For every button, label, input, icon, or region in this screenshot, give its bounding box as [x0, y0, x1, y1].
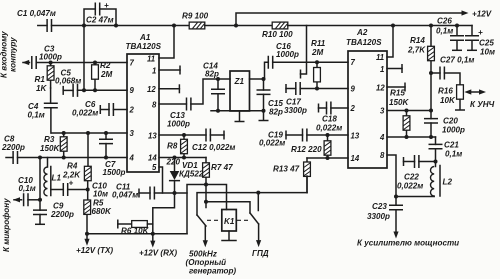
svg-text:3300p: 3300p [284, 106, 307, 115]
svg-text:A1: A1 [139, 33, 151, 42]
resistor R2 2M [92, 61, 113, 90]
svg-text:К УНЧ: К УНЧ [470, 100, 495, 109]
node junction C14 bottom [216, 109, 220, 113]
svg-text:1: 1 [380, 65, 384, 74]
svg-text:генератор): генератор) [189, 267, 236, 276]
node junction R4 riser [86, 131, 90, 135]
svg-text:C2 47м: C2 47м [86, 16, 114, 25]
ground K1 stub [222, 231, 236, 241]
svg-text:14: 14 [148, 154, 157, 163]
svg-text:КД522: КД522 [179, 170, 204, 179]
capacitor C17 3300p [284, 82, 348, 115]
capacitor C18 0,022м [316, 102, 348, 133]
svg-text:2,7K: 2,7K [407, 46, 426, 55]
svg-text:10м: 10м [93, 190, 108, 199]
svg-text:2200p: 2200p [50, 210, 74, 219]
wire K1 coil feed [187, 185, 227, 234]
wire pin3 net A2 [387, 110, 431, 112]
svg-text:C21: C21 [444, 141, 459, 150]
svg-text:К микрофону: К микрофону [2, 198, 11, 252]
svg-text:C20: C20 [443, 117, 458, 126]
svg-text:3: 3 [380, 107, 385, 116]
capacitor C6 0,022м [72, 100, 127, 118]
relay K1 [222, 210, 237, 232]
resistor R8 220 [166, 135, 188, 167]
wire pin11 riser A2 [387, 26, 393, 58]
capacitor C4 0,1м [28, 88, 58, 133]
svg-text:12: 12 [376, 84, 385, 93]
svg-text:C27 0,1м: C27 0,1м [440, 56, 474, 65]
capacitor C11 0,047м [112, 183, 187, 200]
node К УНЧ output [470, 100, 495, 109]
pin 1 stub A1 [159, 66, 180, 75]
svg-text:K1: K1 [224, 217, 235, 226]
svg-text:Z1: Z1 [234, 77, 245, 86]
svg-text:8: 8 [380, 151, 385, 160]
svg-text:A2: A2 [356, 28, 368, 37]
svg-text:1000p: 1000p [39, 53, 62, 62]
svg-text:0,068м: 0,068м [55, 77, 81, 86]
node +12V (TX) arrow [76, 234, 113, 255]
node К усилителю мощности output [357, 232, 459, 248]
svg-text:1K: 1K [36, 84, 48, 93]
svg-text:0,1м: 0,1м [28, 111, 45, 120]
node К микрофону (mic input, rotated label) [2, 197, 22, 252]
wire switch link [206, 202, 250, 213]
svg-text:220: 220 [166, 158, 181, 167]
wire pin14 net A2 [307, 157, 348, 159]
node junction C23 top [394, 195, 398, 199]
svg-text:12: 12 [147, 85, 156, 94]
svg-text:7: 7 [130, 59, 135, 68]
svg-text:C23: C23 [372, 202, 387, 211]
capacitor C2 47м (electrolytic) [86, 1, 116, 26]
capacitor C19 0,022м [259, 129, 348, 148]
svg-text:7: 7 [351, 58, 356, 67]
resistor R5 680K [84, 190, 112, 234]
node junction C7 top [104, 131, 108, 135]
dashed K1 linkage [207, 219, 250, 221]
node junction R3 bottom [62, 156, 66, 160]
svg-text:0,047м: 0,047м [112, 191, 138, 200]
svg-text:4: 4 [379, 133, 385, 142]
node junction R8 top [182, 133, 186, 137]
node junction R7/coil feed [204, 183, 208, 187]
capacitor C20 1000p [424, 111, 465, 138]
node junction RX riser [151, 232, 155, 236]
svg-text:3: 3 [130, 129, 135, 138]
resistor R12 220 [291, 135, 331, 158]
svg-text:К входному: К входному [0, 31, 9, 78]
svg-text:+: + [69, 179, 74, 188]
node junction C1/C2 [82, 24, 86, 28]
svg-text:1000p: 1000p [167, 120, 190, 129]
svg-text:0,1м: 0,1м [445, 150, 462, 159]
capacitor C5 0,068м [55, 69, 81, 97]
svg-text:680K: 680K [92, 207, 113, 216]
svg-text:R3: R3 [44, 135, 55, 144]
pin 12 stub A1 [159, 84, 179, 93]
svg-text:R8: R8 [167, 142, 178, 151]
svg-text:9: 9 [130, 86, 135, 95]
capacitor C3 1000p [32, 45, 62, 70]
resistor R11 2M [311, 39, 326, 89]
capacitor C21 0,1м [429, 137, 463, 162]
node junction C2 right [114, 24, 118, 28]
wire +12V(TX) rail [87, 233, 187, 235]
pin 12 stub A2 [387, 83, 405, 92]
svg-text:R11: R11 [311, 39, 326, 48]
svg-text:контуру: контуру [9, 37, 18, 72]
node +12V (RX) arrow [139, 234, 177, 258]
node junction pin11 riser A2 [391, 24, 395, 28]
node junction R11 top [315, 60, 319, 64]
pin 1 stub A2 [387, 64, 402, 73]
resistor R14 2,7K [407, 26, 434, 111]
wire pin8 riser A2 [387, 155, 396, 197]
capacitor C14 82p [203, 62, 225, 111]
svg-text:C12 0,022м: C12 0,022м [192, 143, 235, 152]
svg-text:0,022м: 0,022м [397, 182, 423, 191]
wire pin14 net A1 [159, 157, 206, 159]
wire [23, 62, 30, 64]
svg-text:1500p: 1500p [103, 168, 126, 177]
svg-text:2200p: 2200p [1, 143, 25, 152]
svg-text:0,022м: 0,022м [316, 124, 342, 133]
node junction R2 bottom [93, 88, 97, 92]
wire R10 riser stub [301, 26, 307, 79]
svg-text:R2: R2 [100, 61, 111, 70]
node +12V arrow [462, 10, 492, 19]
svg-text:L1: L1 [52, 174, 62, 183]
node junction right contact [256, 191, 260, 195]
ground Z1 stub [235, 111, 245, 122]
op-amp U A1 TBA120S [126, 33, 162, 172]
svg-text:150K: 150K [389, 98, 410, 107]
resistor R6 10K [118, 220, 153, 236]
svg-text:14: 14 [351, 154, 360, 163]
svg-text:2: 2 [129, 106, 135, 115]
node junction riser/pin9 [82, 88, 86, 92]
resistor R4 2,2K [62, 133, 91, 190]
node junction C27 branch [429, 71, 433, 75]
svg-text:+12V (TX): +12V (TX) [76, 246, 113, 255]
svg-text:150K: 150K [40, 144, 61, 153]
wire pin4 net A1 [18, 157, 128, 159]
node junction C20 bottom [429, 135, 433, 139]
node junction R3 top [62, 131, 66, 135]
switch S1a (500kHz) [186, 215, 237, 276]
node junction R15 bottom [405, 135, 409, 139]
wire Z1 right to C16 riser [250, 78, 265, 80]
svg-text:10м: 10м [480, 48, 495, 57]
svg-text:0,1м: 0,1м [436, 27, 453, 36]
capacitor C10 10м (electrolytic) [51, 179, 108, 199]
svg-text:82p: 82p [205, 70, 219, 79]
capacitor C9 2200p [33, 200, 74, 225]
capacitor C1 0,047м [17, 9, 190, 32]
capacitor C7 1500p [99, 133, 126, 177]
svg-text:TBA120S: TBA120S [346, 38, 382, 47]
node junction C15 bottom [262, 109, 266, 113]
svg-text:10K: 10K [440, 96, 456, 105]
node junction R14 top [429, 24, 433, 28]
wire pin9 net A1 [78, 89, 128, 91]
node junction link left [204, 200, 208, 204]
wire rail after R10 [288, 25, 472, 27]
capacitor C27 0,1м [431, 56, 474, 85]
node junction C26 [455, 24, 459, 28]
wire Z1 bottom net [211, 110, 264, 112]
wire pin11 riser A1 [159, 26, 174, 59]
node junction C22/L2 [434, 160, 438, 164]
crystal filter Z1 [230, 71, 250, 111]
switch S1b (ГПД) [250, 193, 269, 258]
resistor R1 1K [35, 63, 54, 94]
node junction mic/C9 [38, 198, 42, 202]
node junction pin11 riser A1 [172, 24, 176, 28]
resistor R9 100 [182, 12, 209, 29]
node junction C20 top [429, 109, 433, 113]
inductor L2 [396, 162, 452, 197]
wire pin4 net A2 [387, 136, 436, 138]
node junction R2 top [93, 61, 97, 65]
op-amp U A2 TBA120S [346, 28, 387, 168]
capacitor C12 0,022м [184, 129, 235, 153]
svg-text:0,022м: 0,022м [72, 109, 98, 118]
svg-text:К усилителю мощности: К усилителю мощности [357, 239, 459, 248]
capacitor C16 1000p [265, 42, 349, 79]
capacitor C13 1000p [159, 79, 230, 129]
svg-text:0,022м: 0,022м [259, 139, 285, 148]
wire RX feed riser [153, 193, 175, 234]
wire rail to R10 [205, 25, 272, 27]
svg-text:1000p: 1000p [276, 50, 299, 59]
svg-text:11: 11 [376, 53, 384, 62]
node К входному контуру (input, rotated label) [0, 31, 30, 78]
svg-text:2: 2 [350, 104, 356, 113]
capacitor C15 82p [257, 79, 284, 117]
svg-text:0,1м: 0,1м [19, 184, 36, 193]
capacitor C23 3300p [367, 197, 403, 232]
node junction R11 bottom [315, 87, 319, 91]
ground C15 stub [259, 111, 269, 121]
svg-text:5: 5 [152, 163, 157, 172]
wire riser C2 left [84, 9, 95, 26]
node junction R4/R5/C10 [86, 188, 90, 192]
svg-text:1000p: 1000p [442, 126, 465, 135]
svg-text:R6 10K: R6 10K [121, 227, 150, 236]
potentiometer R16 10K [438, 85, 486, 110]
resistor R15 150K [389, 89, 410, 138]
svg-text:+12V (RX): +12V (RX) [139, 249, 177, 258]
node junction R12 top [326, 133, 330, 137]
svg-text:R4: R4 [67, 162, 78, 171]
svg-text:+: + [478, 28, 483, 37]
svg-text:13: 13 [148, 132, 157, 141]
svg-text:C18: C18 [322, 115, 337, 124]
node junction L1/C9 top [38, 156, 42, 160]
node junction VD1 top [173, 156, 177, 160]
node junction C15 top [262, 77, 266, 81]
wire riser C1-C5 [83, 26, 85, 91]
svg-text:R10 100: R10 100 [262, 30, 293, 39]
node junction R15 top [405, 109, 409, 113]
node junction VD1 bottom [173, 191, 177, 195]
svg-text:R1: R1 [35, 75, 46, 84]
wire pin13 net A1 [159, 134, 184, 136]
wire pin7 net A1 [36, 62, 127, 64]
svg-text:2M: 2M [311, 48, 324, 57]
node junction TX arrow [85, 232, 89, 236]
svg-text:9: 9 [351, 85, 356, 94]
wire pin5 riser A1 [159, 167, 163, 193]
node junction C7 bottom [104, 156, 108, 160]
svg-text:R14: R14 [410, 36, 425, 45]
wire pin3 net A1 [51, 132, 127, 134]
capacitor C25 10м (electrolytic) [465, 26, 495, 57]
svg-text:82p: 82p [269, 108, 283, 117]
svg-text:R16: R16 [438, 87, 453, 96]
capacitor C8 2200p [1, 135, 25, 165]
wire L1 branch vertical [39, 158, 41, 200]
node junction R8 bottom [182, 156, 186, 160]
svg-text:2M: 2M [100, 70, 113, 79]
svg-text:R7 47: R7 47 [211, 163, 233, 172]
wire contact net (wire#2) [197, 193, 307, 215]
svg-text:4: 4 [129, 154, 135, 163]
svg-text:3300p: 3300p [367, 212, 390, 221]
svg-text:R13 47: R13 47 [273, 165, 300, 174]
svg-text:L2: L2 [443, 178, 453, 187]
svg-text:R9 100: R9 100 [182, 12, 209, 21]
svg-text:C25: C25 [479, 39, 494, 48]
node junction +12V corner [234, 24, 238, 28]
resistor R10 100 [262, 22, 293, 39]
wire R13 bottom to contact net [306, 176, 308, 193]
capacitor C22 0,022м [397, 155, 436, 191]
svg-text:C22: C22 [404, 173, 419, 182]
resistor R3 150K [40, 133, 67, 158]
inductor L1 [44, 158, 62, 196]
diode VD1 КД522 [170, 158, 204, 194]
node junction R1 top [49, 61, 53, 65]
node junction C14 top [216, 77, 220, 81]
svg-text:13: 13 [351, 132, 360, 141]
svg-text:R12 220: R12 220 [291, 145, 322, 154]
svg-text:R15: R15 [390, 89, 405, 98]
capacitor C26 0,1м [436, 17, 464, 51]
svg-text:ГПД: ГПД [252, 249, 269, 258]
svg-text:1: 1 [152, 67, 156, 76]
svg-text:C1 0,047м: C1 0,047м [17, 9, 56, 18]
capacitor C10 0,1м (mic) [18, 176, 40, 206]
svg-text:8: 8 [152, 101, 157, 110]
resistor R7 47 [203, 158, 233, 208]
svg-text:+12V: +12V [472, 10, 492, 19]
node junction R12 bottom [326, 156, 330, 160]
resistor R13 47 [273, 158, 310, 193]
svg-text:TBA120S: TBA120S [126, 42, 162, 51]
svg-text:C26: C26 [437, 17, 452, 26]
svg-text:11: 11 [147, 55, 155, 64]
wire +12V top rail [236, 13, 465, 26]
